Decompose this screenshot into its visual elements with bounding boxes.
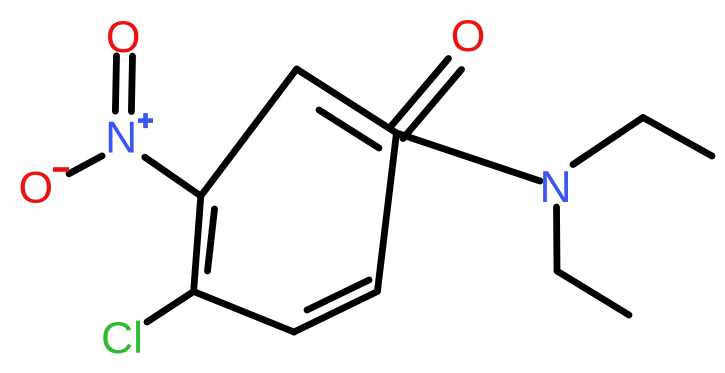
svg-text:O: O — [18, 163, 53, 212]
svg-text:O: O — [451, 12, 486, 61]
svg-text:N: N — [105, 113, 137, 162]
svg-text:N: N — [540, 163, 572, 212]
svg-text:O: O — [106, 13, 141, 62]
svg-text:Cl: Cl — [101, 314, 143, 363]
